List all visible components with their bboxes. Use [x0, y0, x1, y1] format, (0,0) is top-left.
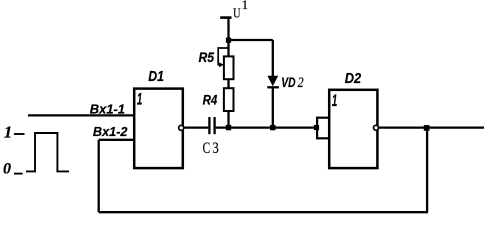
svg-text:1: 1	[137, 91, 142, 109]
svg-text:1: 1	[4, 122, 13, 141]
svg-text:VD: VD	[281, 75, 295, 91]
svg-text:R5: R5	[199, 49, 215, 65]
svg-text:D2: D2	[345, 70, 362, 87]
svg-text:3: 3	[213, 140, 219, 157]
svg-text:D1: D1	[148, 68, 164, 85]
svg-text:U: U	[233, 7, 240, 22]
svg-text:Bx1-1: Bx1-1	[90, 101, 125, 116]
svg-text:C: C	[203, 140, 211, 157]
svg-text:Bx1-2: Bx1-2	[93, 124, 128, 139]
svg-text:1: 1	[242, 0, 248, 12]
svg-text:0: 0	[3, 160, 11, 177]
svg-text:2: 2	[298, 75, 304, 91]
svg-text:R4: R4	[203, 92, 218, 107]
svg-text:1: 1	[332, 92, 337, 110]
